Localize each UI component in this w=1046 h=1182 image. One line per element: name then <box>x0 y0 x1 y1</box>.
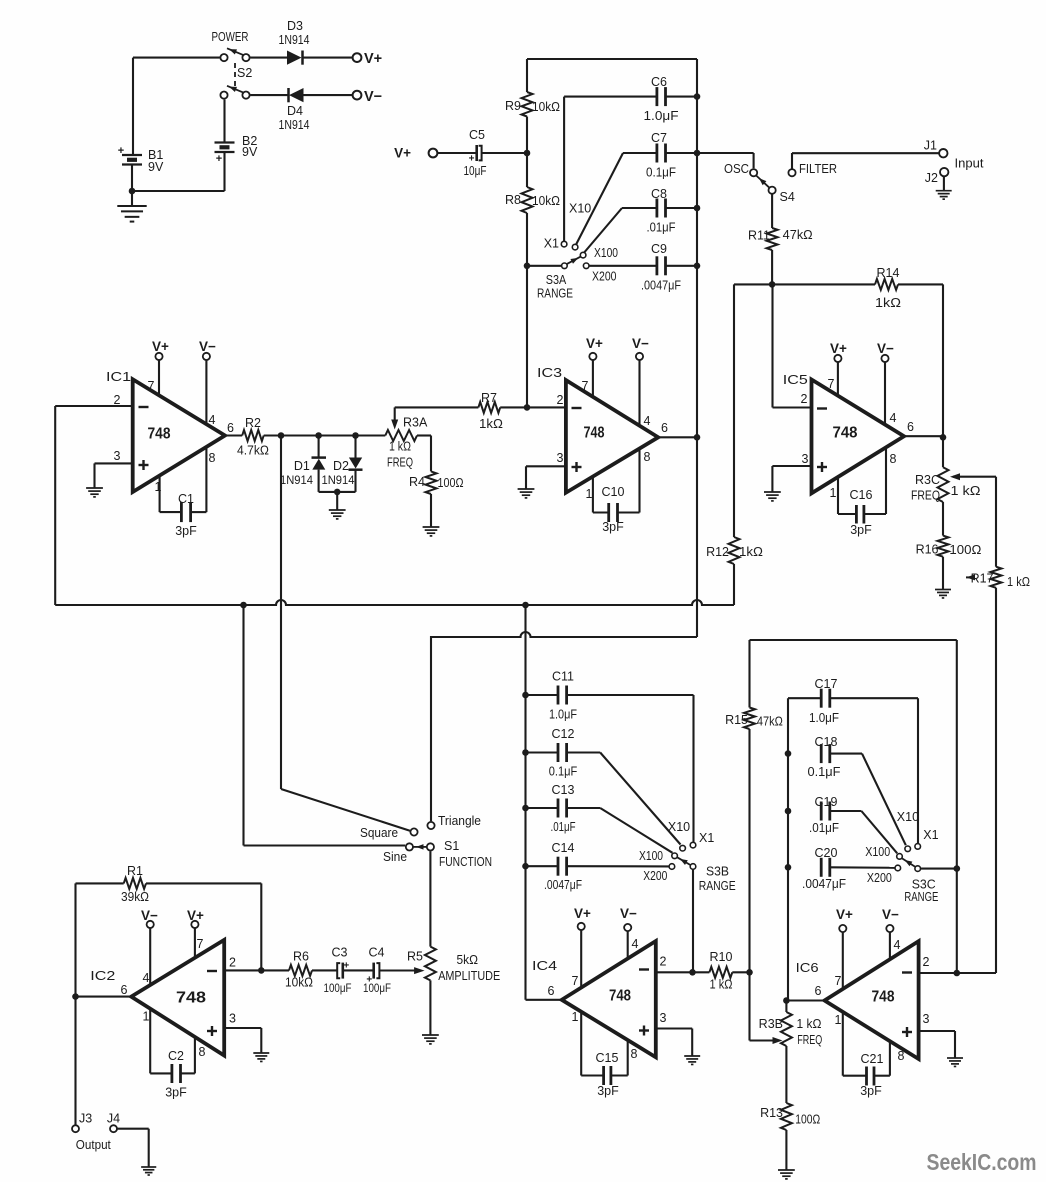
svg-text:2: 2 <box>557 393 564 407</box>
svg-text:C11: C11 <box>552 670 574 684</box>
svg-text:C12: C12 <box>552 727 575 741</box>
svg-text:C6: C6 <box>651 75 667 89</box>
svg-text:FREQ: FREQ <box>797 1033 822 1047</box>
svg-text:OSC: OSC <box>724 162 749 176</box>
svg-text:7: 7 <box>572 974 579 988</box>
svg-text:IC6: IC6 <box>796 961 819 975</box>
svg-text:RANGE: RANGE <box>537 287 573 301</box>
svg-text:8: 8 <box>890 452 897 466</box>
svg-text:6: 6 <box>661 421 668 435</box>
svg-text:4: 4 <box>894 938 901 952</box>
svg-text:1N914: 1N914 <box>279 118 310 132</box>
svg-text:8: 8 <box>631 1047 638 1061</box>
svg-text:1 kΩ: 1 kΩ <box>710 978 733 992</box>
svg-text:R11: R11 <box>748 229 770 243</box>
svg-text:D4: D4 <box>287 104 303 118</box>
svg-text:1: 1 <box>830 486 837 500</box>
svg-text:V+: V+ <box>394 146 411 161</box>
svg-text:3pF: 3pF <box>860 1084 882 1098</box>
svg-text:S4: S4 <box>780 190 795 204</box>
svg-text:4: 4 <box>209 413 216 427</box>
svg-text:X200: X200 <box>867 871 892 885</box>
svg-text:1 kΩ: 1 kΩ <box>1007 575 1030 589</box>
svg-text:R8: R8 <box>505 193 521 207</box>
svg-text:V−: V− <box>882 907 899 922</box>
svg-text:X200: X200 <box>592 270 617 284</box>
svg-text:Input: Input <box>955 157 985 171</box>
svg-text:3: 3 <box>229 1012 236 1026</box>
svg-text:100μF: 100μF <box>324 981 352 995</box>
svg-text:C7: C7 <box>651 131 667 145</box>
svg-text:3: 3 <box>557 451 564 465</box>
svg-text:2: 2 <box>801 392 808 406</box>
svg-text:R12: R12 <box>706 545 729 559</box>
svg-text:C15: C15 <box>596 1051 619 1065</box>
svg-text:R13: R13 <box>760 1106 783 1120</box>
svg-text:748: 748 <box>833 425 858 442</box>
svg-text:V+: V+ <box>574 906 591 921</box>
svg-text:.01μF: .01μF <box>809 821 839 835</box>
svg-text:6: 6 <box>548 984 555 998</box>
svg-text:.0047μF: .0047μF <box>641 278 681 292</box>
svg-text:C9: C9 <box>651 242 667 256</box>
svg-text:IC3: IC3 <box>537 366 562 380</box>
svg-text:R15: R15 <box>725 713 748 727</box>
svg-text:1: 1 <box>586 487 593 501</box>
svg-text:C18: C18 <box>815 735 838 749</box>
svg-text:6: 6 <box>121 983 128 997</box>
svg-text:+: + <box>469 154 475 165</box>
svg-text:3: 3 <box>923 1012 930 1026</box>
svg-text:Square: Square <box>360 826 398 840</box>
svg-text:.01μF: .01μF <box>551 820 576 834</box>
svg-text:D2: D2 <box>333 459 349 473</box>
svg-text:1: 1 <box>143 1010 150 1024</box>
svg-text:3: 3 <box>802 452 809 466</box>
svg-text:V−: V− <box>364 89 382 105</box>
svg-text:9V: 9V <box>242 145 258 159</box>
svg-text:1N914: 1N914 <box>322 473 355 487</box>
svg-text:3pF: 3pF <box>597 1084 619 1098</box>
svg-text:2: 2 <box>923 955 930 969</box>
svg-text:4.7kΩ: 4.7kΩ <box>237 444 269 458</box>
svg-text:V−: V− <box>620 906 637 921</box>
svg-text:IC4: IC4 <box>532 959 557 973</box>
svg-text:47kΩ: 47kΩ <box>783 228 813 242</box>
svg-text:V+: V+ <box>187 908 204 923</box>
svg-text:R9: R9 <box>505 99 521 113</box>
svg-text:C19: C19 <box>815 795 838 809</box>
svg-text:D1: D1 <box>294 459 310 473</box>
svg-text:POWER: POWER <box>212 30 249 44</box>
svg-text:V−: V− <box>141 908 158 923</box>
svg-text:V+: V+ <box>830 341 847 356</box>
svg-text:X10: X10 <box>897 810 919 824</box>
svg-text:7: 7 <box>582 379 589 393</box>
svg-text:1N914: 1N914 <box>279 33 310 47</box>
svg-text:C21: C21 <box>861 1052 884 1066</box>
svg-text:V+: V+ <box>586 336 603 351</box>
svg-text:8: 8 <box>898 1049 905 1063</box>
svg-text:RANGE: RANGE <box>904 890 938 904</box>
svg-text:0.1μF: 0.1μF <box>646 166 676 180</box>
svg-text:FUNCTION: FUNCTION <box>439 855 492 869</box>
svg-text:2: 2 <box>114 393 121 407</box>
svg-text:4: 4 <box>890 411 897 425</box>
svg-text:IC2: IC2 <box>90 969 115 983</box>
svg-text:FREQ: FREQ <box>911 489 940 503</box>
svg-text:V+: V+ <box>152 339 169 354</box>
svg-text:8: 8 <box>644 450 651 464</box>
svg-text:C1: C1 <box>178 492 194 506</box>
svg-text:R6: R6 <box>293 950 309 964</box>
svg-text:3pF: 3pF <box>850 523 872 537</box>
svg-text:FILTER: FILTER <box>799 162 837 176</box>
svg-text:.01μF: .01μF <box>647 221 676 235</box>
svg-text:V+: V+ <box>364 51 382 67</box>
svg-text:S3A: S3A <box>546 273 567 287</box>
svg-text:C13: C13 <box>552 783 575 797</box>
svg-text:Triangle: Triangle <box>438 814 481 828</box>
svg-text:7: 7 <box>828 377 835 391</box>
svg-text:X100: X100 <box>639 849 663 863</box>
svg-text:3: 3 <box>114 449 121 463</box>
svg-text:+: + <box>216 153 222 165</box>
svg-text:100Ω: 100Ω <box>438 476 464 490</box>
svg-text:3pF: 3pF <box>175 524 197 538</box>
svg-text:7: 7 <box>835 974 842 988</box>
svg-text:R3B: R3B <box>759 1017 783 1031</box>
svg-text:V−: V− <box>877 341 894 356</box>
svg-text:1kΩ: 1kΩ <box>479 417 503 431</box>
svg-text:C16: C16 <box>850 488 873 502</box>
svg-text:X200: X200 <box>643 869 667 883</box>
svg-text:C3: C3 <box>332 946 348 960</box>
svg-text:1: 1 <box>835 1013 842 1027</box>
svg-text:SeekIC.com: SeekIC.com <box>927 1149 1037 1175</box>
svg-text:1: 1 <box>572 1010 579 1024</box>
svg-text:J1: J1 <box>924 139 937 153</box>
svg-text:10kΩ: 10kΩ <box>532 194 560 208</box>
svg-text:X1: X1 <box>699 831 714 845</box>
svg-text:4: 4 <box>143 971 150 985</box>
svg-text:100μF: 100μF <box>363 981 391 995</box>
svg-text:RANGE: RANGE <box>699 879 736 893</box>
svg-text:D3: D3 <box>287 19 303 33</box>
svg-text:R10: R10 <box>710 950 733 964</box>
svg-text:C17: C17 <box>815 677 838 691</box>
svg-text:C2: C2 <box>168 1049 184 1063</box>
svg-text:R16: R16 <box>916 543 939 557</box>
svg-text:4: 4 <box>632 937 639 951</box>
svg-text:1 kΩ: 1 kΩ <box>951 484 981 498</box>
svg-text:R7: R7 <box>481 391 497 405</box>
svg-text:R3C: R3C <box>915 473 940 487</box>
svg-text:AMPLITUDE: AMPLITUDE <box>438 969 500 983</box>
svg-text:7: 7 <box>148 379 155 393</box>
svg-text:R4: R4 <box>409 475 425 489</box>
svg-text:1.0μF: 1.0μF <box>809 711 839 725</box>
svg-text:R5: R5 <box>407 950 423 964</box>
svg-text:X1: X1 <box>923 828 938 842</box>
svg-text:1.0μF: 1.0μF <box>549 708 577 722</box>
svg-text:2: 2 <box>229 956 236 970</box>
svg-text:7: 7 <box>197 937 204 951</box>
svg-text:748: 748 <box>609 988 631 1005</box>
svg-text:S1: S1 <box>444 839 459 853</box>
svg-text:C5: C5 <box>469 128 485 142</box>
svg-text:100Ω: 100Ω <box>949 543 981 557</box>
svg-text:C4: C4 <box>369 946 385 960</box>
svg-text:Output: Output <box>76 1138 111 1152</box>
svg-text:J4: J4 <box>107 1112 120 1126</box>
svg-text:5kΩ: 5kΩ <box>457 953 479 967</box>
svg-text:3: 3 <box>660 1011 667 1025</box>
svg-text:1N914: 1N914 <box>280 473 313 487</box>
svg-text:FREQ: FREQ <box>387 456 413 470</box>
svg-text:1kΩ: 1kΩ <box>739 545 763 559</box>
svg-text:1 kΩ: 1 kΩ <box>797 1017 822 1031</box>
svg-text:.0047μF: .0047μF <box>544 878 582 892</box>
svg-text:C14: C14 <box>552 841 575 855</box>
svg-text:10μF: 10μF <box>464 164 487 178</box>
svg-text:X10: X10 <box>668 820 690 834</box>
svg-text:10kΩ: 10kΩ <box>532 100 560 114</box>
svg-text:0.1μF: 0.1μF <box>549 765 578 779</box>
svg-text:J2: J2 <box>925 171 938 185</box>
svg-text:1 kΩ: 1 kΩ <box>389 440 411 454</box>
svg-text:X10: X10 <box>569 202 591 216</box>
svg-text:J3: J3 <box>79 1112 92 1126</box>
svg-text:6: 6 <box>227 421 234 435</box>
svg-text:V+: V+ <box>836 907 853 922</box>
svg-text:R14: R14 <box>877 266 900 280</box>
svg-text:748: 748 <box>872 989 895 1006</box>
svg-text:3pF: 3pF <box>165 1086 187 1100</box>
svg-text:X1: X1 <box>544 237 559 251</box>
svg-text:100Ω: 100Ω <box>795 1113 820 1127</box>
svg-text:V−: V− <box>632 336 649 351</box>
svg-text:R2: R2 <box>245 416 261 430</box>
svg-text:X100: X100 <box>865 845 890 859</box>
svg-text:C8: C8 <box>651 187 667 201</box>
svg-text:.0047μF: .0047μF <box>802 877 846 891</box>
svg-text:39kΩ: 39kΩ <box>121 890 149 904</box>
svg-text:X100: X100 <box>594 246 618 260</box>
svg-text:1kΩ: 1kΩ <box>875 296 901 310</box>
svg-text:2: 2 <box>660 955 667 969</box>
svg-text:47kΩ: 47kΩ <box>757 715 783 729</box>
svg-text:S2: S2 <box>237 66 252 80</box>
svg-text:10kΩ: 10kΩ <box>285 976 313 990</box>
svg-text:6: 6 <box>907 420 914 434</box>
svg-text:S3B: S3B <box>706 865 729 879</box>
svg-text:IC1: IC1 <box>106 370 131 384</box>
svg-text:6: 6 <box>815 984 822 998</box>
svg-text:+: + <box>118 145 124 157</box>
svg-text:R3A: R3A <box>403 416 428 430</box>
svg-text:748: 748 <box>176 990 206 1007</box>
svg-text:Sine: Sine <box>383 850 407 864</box>
svg-text:3pF: 3pF <box>602 520 624 534</box>
svg-text:9V: 9V <box>148 160 164 174</box>
svg-text:R1: R1 <box>127 864 143 878</box>
svg-text:IC5: IC5 <box>783 373 808 387</box>
svg-text:1.0μF: 1.0μF <box>644 109 679 123</box>
svg-text:4: 4 <box>644 414 651 428</box>
svg-text:8: 8 <box>209 451 216 465</box>
svg-text:8: 8 <box>199 1045 206 1059</box>
svg-text:C20: C20 <box>815 846 838 860</box>
svg-text:C10: C10 <box>602 485 625 499</box>
svg-text:748: 748 <box>584 425 605 442</box>
svg-text:0.1μF: 0.1μF <box>808 765 841 779</box>
svg-text:V−: V− <box>199 339 216 354</box>
svg-text:748: 748 <box>148 426 171 443</box>
